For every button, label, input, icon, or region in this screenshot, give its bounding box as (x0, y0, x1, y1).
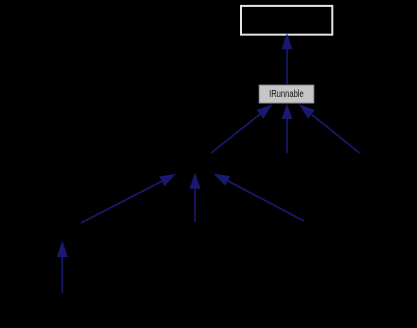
svg-text:IRunnable: IRunnable (269, 88, 304, 99)
